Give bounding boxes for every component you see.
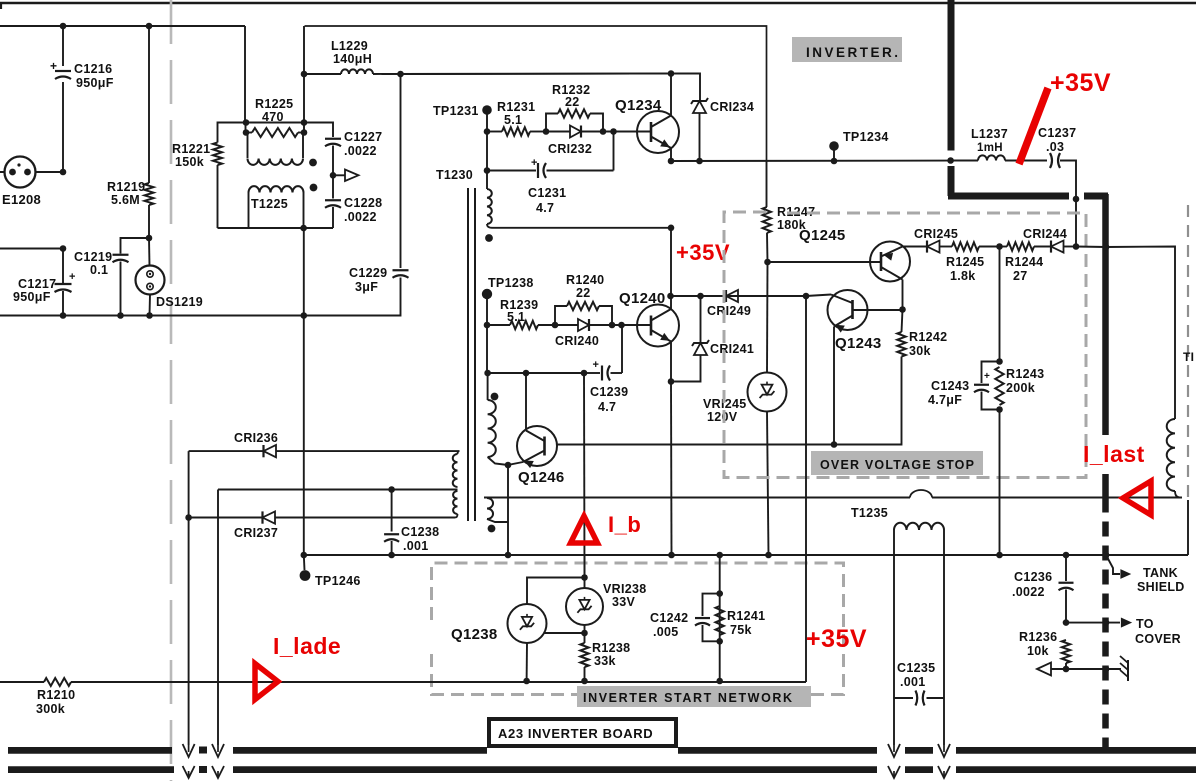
wire Q1238 anode loop [527,578,585,605]
wire row to tank coil [1106,247,1175,420]
node R1241 box bottom [716,638,723,645]
wire +35V link [670,228,672,296]
svg-text:R1241: R1241 [727,609,765,623]
label INVERTER START NETWORK [577,686,811,707]
wire L1237 to C1237 [1005,160,1047,162]
svg-text:22: 22 [565,95,580,109]
label R1245 [946,255,984,283]
label L1229 [331,39,372,66]
svg-text:4.7: 4.7 [598,400,616,414]
wire Q1234 collector [670,74,672,116]
svg-text:C1231: C1231 [528,186,566,200]
svg-text:200k: 200k [1006,381,1035,395]
label R1225 [255,97,293,124]
svg-text:140μH: 140μH [333,52,372,66]
wire T1230 tap [218,489,458,491]
wire VRI245 top [766,262,769,373]
svg-text:10k: 10k [1027,644,1049,658]
diode CRI236 [189,445,460,457]
svg-text:CRI232: CRI232 [548,142,592,156]
wire +35V rail [671,160,951,162]
wire Q1245 base [768,261,882,263]
node rail R1241 [716,552,723,559]
testpoint TP1234 [829,141,839,161]
resistor R1221 [213,123,246,229]
node E1208 junction [60,169,67,176]
wire Q1245 collector [902,280,904,310]
svg-text:33V: 33V [612,595,636,609]
wire winding1 to Q1234 emitter column [492,227,671,229]
svg-text:5.6M: 5.6M [111,193,140,207]
wire top rail to T1230 corner [305,26,767,161]
svg-text:+: + [593,359,600,371]
svg-text:R1243: R1243 [1006,367,1044,381]
capacitor C1239 [484,325,622,381]
node R1247 bottom [764,259,771,266]
svg-text:E1208: E1208 [2,192,41,207]
node C1239 riser [618,322,625,329]
arrow from transformer (open) [1037,663,1051,676]
wire tap corner column [217,490,219,746]
wire top rail left [0,25,245,27]
wire R1241 column [719,555,721,681]
node rail DS1219 [146,312,153,319]
svg-text:INVERTER START NETWORK: INVERTER START NETWORK [583,691,794,705]
signal arrow (buffer) [333,170,359,182]
inductor L1229 [341,69,373,74]
wire row to shield [1076,246,1106,249]
label L1237 [971,127,1008,154]
svg-text:+: + [531,157,538,169]
resistor R1236 [1062,640,1070,669]
transistor Q1246 [517,426,557,467]
wire CRI236 left drop [188,451,190,517]
node rail T1225 column [301,312,308,319]
resistor R1241 [716,606,724,635]
edge dashed continuation [1187,205,1189,500]
node VRI238 top junction [581,574,588,581]
svg-text:C1228: C1228 [344,196,382,210]
wire I_b column [583,373,586,578]
svg-text:R1221: R1221 [172,142,210,156]
node C1237 on shield [1073,196,1080,203]
annotation I_lade arrow [255,664,278,700]
capacitor C1227 [304,123,341,176]
transistor Q1240 [637,305,679,347]
svg-text:TP1246: TP1246 [315,574,361,588]
transformer T1225 upper winding [248,133,304,165]
node C1238 top [388,486,395,493]
rail dots left [199,747,207,774]
svg-text:30k: 30k [909,344,931,358]
dashed box over voltage stop [724,212,1086,478]
node rail C1238 [388,552,395,559]
svg-text:CRI249: CRI249 [707,304,751,318]
svg-text:+: + [50,59,57,73]
zener CRI234 [401,74,709,162]
label Q1246 [518,469,565,486]
wire C1219 corner [121,238,150,254]
svg-text:Q1238: Q1238 [451,626,498,643]
annotation I_b arrow [571,516,598,543]
wire L1229 to main [373,73,700,76]
fold line (grey dashed vertical) [170,0,173,781]
capacitor C1216 [50,59,71,79]
label CRI245 [914,227,958,241]
svg-text:5.1: 5.1 [507,310,525,324]
svg-text:COVER: COVER [1135,632,1181,646]
svg-text:R1231: R1231 [497,100,535,114]
svg-text:I_last: I_last [1083,441,1145,467]
label TO COVER [1135,617,1181,646]
svg-text:R1219: R1219 [107,180,145,194]
wire R1243 column top [999,247,1001,362]
svg-text:1mH: 1mH [977,142,1003,154]
label DS1219 [156,295,203,309]
svg-text:C1239: C1239 [590,385,628,399]
shield border lower segment [1102,474,1109,498]
label C1237 [1038,126,1076,154]
phase dot T1225 upper [309,159,317,167]
svg-text:T1230: T1230 [436,168,473,182]
svg-text:Q1245: Q1245 [799,227,846,244]
wire R1243 column bottom [999,410,1001,556]
arrow exit right B [938,744,950,778]
svg-text:TP1231: TP1231 [433,104,479,118]
svg-text:.0022: .0022 [1012,585,1045,599]
svg-text:75k: 75k [730,623,752,637]
svg-text:.0022: .0022 [344,144,377,158]
transformer T1230 core [468,188,475,521]
svg-text:C1216: C1216 [74,62,112,76]
phase dot T1230 mid [491,393,499,401]
node R1225 left [243,129,250,136]
svg-text:CRI245: CRI245 [914,227,958,241]
svg-text:.0022: .0022 [344,210,377,224]
label R1236 [1019,630,1057,658]
svg-text:470: 470 [262,110,284,124]
capacitor C1243 [974,362,1000,410]
label C1235 [897,661,935,689]
border top edge [0,3,1196,9]
label TP1234 [843,130,889,144]
resistor R1232 bypass loop [546,109,603,131]
transformer T1230 winding mid right [488,373,508,465]
wire start rail (y=555) [304,554,1188,556]
label R1244 [1005,255,1043,283]
svg-text:27: 27 [1013,269,1028,283]
wire Q1246 emitter node [505,462,523,469]
label CRI240 [555,334,599,348]
svg-text:R1242: R1242 [909,330,947,344]
wire C1237 corner down [1060,161,1076,200]
svg-text:.005: .005 [653,625,679,639]
node C1231 riser [610,128,617,135]
shield border vertical [948,0,955,196]
wire Q1243 base [806,295,831,297]
chassis ground symbol [1120,656,1128,681]
wire Q1246 base [557,444,834,446]
node top rail junction R1219 [146,23,153,30]
node CRI241 top [697,293,704,300]
node R1241 rail bottom [716,678,723,685]
label R1238 [592,641,630,668]
resistor R1242 [834,310,906,445]
wire R1225 top link [246,122,304,124]
zener VRI238 [566,555,603,625]
wire CRI249 row [671,295,807,297]
svg-text:CRI236: CRI236 [234,431,278,445]
svg-text:33k: 33k [594,654,616,668]
diode CRI244 [1051,241,1076,253]
label C1238 [401,525,439,553]
label R1247 [777,205,815,232]
node rail VRI245 [765,552,772,559]
node R1231 right [543,128,550,135]
wire T1225 column down [303,228,305,555]
resistor R1243 [995,367,1003,405]
node C1236 bottom [1063,619,1070,626]
phase dot T1230 upper [485,234,493,242]
node CRI234 bottom [696,158,703,165]
label R1232 [552,83,590,109]
svg-text:C1242: C1242 [650,611,688,625]
node Q1240 collector [667,293,674,300]
wire E1208 to C1216 line [36,171,64,173]
node rail Q1240 emitter [668,552,675,559]
zener VRI245 [748,373,787,412]
svg-text:22: 22 [576,286,591,300]
node winding1 junction [668,225,675,232]
capacitor C1238 [384,490,399,556]
node rail Q1246 emitter [505,552,512,559]
svg-text:TO: TO [1136,617,1154,631]
node thick-line crossing [947,157,954,164]
node mid rail junction [60,245,67,252]
svg-text:C1243: C1243 [931,379,969,393]
node L1229 right [397,71,404,78]
node buffer junction [330,172,337,179]
label C1227 [344,130,382,158]
label A23 INVERTER BOARD box [489,719,676,746]
label Q1238 [451,626,498,643]
resistor R1247 [763,161,771,262]
wire T1225 right post [303,26,305,133]
node TP1231 wire [484,128,491,135]
node R1239 right [552,322,559,329]
resistor R1225 [246,128,304,137]
node Q1238 bottom [523,678,530,685]
svg-text:C1236: C1236 [1014,570,1052,584]
wire emitter column [507,465,509,555]
node Q1243 collector junction [899,306,906,313]
wire L1229 lead [304,73,341,75]
label CRI249 [707,304,751,318]
diode CRI245 [927,241,952,253]
label CRI241 [710,342,754,356]
node T1225 bottom [300,225,307,232]
wire left mid rail [0,248,63,250]
testpoint TP1231 [482,105,492,131]
node rail R1243 [996,552,1003,559]
wire Q1240 emitter column [670,382,673,556]
label Q1243 [835,335,882,352]
bottom rail 2 [8,766,1196,773]
svg-text:Q1243: Q1243 [835,335,882,352]
label VRI238 [603,582,647,609]
wire tank shield stub [1106,555,1130,578]
dashed box inverter start network [432,563,844,695]
svg-text:950μF: 950μF [13,290,51,304]
svg-text:+35V: +35V [1050,69,1111,97]
svg-text:4.7μF: 4.7μF [928,393,962,407]
wire Q1240 base [622,324,652,326]
label R1219 [107,180,145,207]
node R1236 bottom [1063,666,1070,673]
annotation +35V pointer line [1019,88,1048,164]
wire +35V start column [805,296,807,682]
capacitor C1217 [55,271,76,292]
svg-text:C1219: C1219 [74,250,112,264]
wire C1216 branch [62,26,64,172]
wire C1236 column [1065,555,1067,581]
transistor Q1234 [637,111,679,153]
svg-text:R1210: R1210 [37,688,75,702]
label C1217 [13,277,56,304]
annotation I_lade [273,633,341,659]
label C1243 [928,379,969,407]
wire Q1234 base [614,131,652,133]
svg-text:950μF: 950μF [76,76,114,90]
node TP1238 wire [484,322,491,329]
label C1242 [650,611,688,639]
wire Q1234 emitter [670,148,672,161]
svg-text:R1238: R1238 [592,641,630,655]
tank winding right edge [1167,419,1180,498]
node Q1234 collector [668,70,675,77]
wire rail right corner [1187,500,1189,555]
svg-text:I_b: I_b [608,512,641,537]
label Q1240 [619,290,666,307]
transformer T1230 winding lower right [487,498,508,523]
svg-text:CRI234: CRI234 [710,100,754,114]
label E1208 [2,192,41,207]
wire Q1240 emitter [670,342,672,382]
node Q1234 emitter [668,158,675,165]
capacitor C1228 [325,175,341,228]
label CRI234 [710,100,754,114]
node R1245-R1244 [996,243,1003,250]
svg-text:R1245: R1245 [946,255,984,269]
wire C1237 column [1075,199,1077,247]
node VRI238-Q1238 junction [581,630,588,637]
svg-text:DS1219: DS1219 [156,295,203,309]
wire to-cover [1066,618,1131,627]
svg-text:.001: .001 [900,675,926,689]
svg-text:A23 INVERTER BOARD: A23 INVERTER BOARD [498,726,653,741]
node Q1240 emitter [668,378,675,385]
svg-text:120V: 120V [707,410,738,424]
label R1239 [500,298,538,324]
node start rail left end [301,552,308,559]
svg-text:C1217: C1217 [18,277,56,291]
label TP1231 [433,104,479,118]
wire C1229 bottom corner [304,278,401,316]
capacitor C1219 [113,255,129,263]
svg-text:Q1234: Q1234 [615,97,662,114]
label T1230 [436,168,473,182]
label TANK SHIELD [1137,566,1185,594]
diode CRI232 [546,126,614,138]
label CRI236 [234,431,278,445]
connector E1208 [0,157,36,188]
svg-text:T1235: T1235 [851,506,888,520]
svg-text:I_lade: I_lade [273,633,341,659]
label C1216 [74,62,114,90]
transformer T1235 primary bump [910,490,932,497]
label OVER VOLTAGE STOP [811,451,983,475]
svg-text:150k: 150k [175,155,204,169]
label Q1245 [799,227,846,244]
label INVERTER box [792,37,902,62]
node L1229 left [301,71,308,78]
node link left [243,119,250,126]
wire CRI237 left column [188,518,190,746]
testpoint TP1238 [482,289,492,325]
arrow exit right A [888,744,900,778]
svg-text:5.1: 5.1 [504,113,522,127]
node loop right [600,128,607,135]
diode CRI237 [189,511,455,523]
node box top [996,358,1003,365]
resistor R1219 [145,26,154,238]
node row on shield [1103,244,1110,251]
svg-text:C1237: C1237 [1038,126,1076,140]
transistor Q1238 (SCR) [508,604,547,643]
label C1228 [344,196,382,224]
svg-text:R1225: R1225 [255,97,293,111]
label T1235 [851,506,888,520]
svg-text:.001: .001 [403,539,429,553]
label C1236 [1012,570,1052,599]
zener CRI241 [671,296,709,382]
label R1243 [1006,367,1044,395]
node CRI244 C1237 column [1073,243,1080,250]
resistor R1210 [44,678,71,686]
node R1238 bottom [581,678,588,685]
svg-text:+35V: +35V [676,240,730,265]
node to-cover shield [1103,619,1110,626]
node Q1243 emitter rail [831,441,838,448]
capacitor C1235 [894,691,944,706]
node top rail junction C1216 [60,23,67,30]
arrow exit left A [183,744,195,778]
capacitor C1242 [695,594,720,642]
label R1242 [909,330,947,358]
transformer T1230 winding upper right [487,171,492,228]
transformer T1225 lower winding [249,186,304,228]
wire Q1238 gate [544,632,585,634]
svg-text:CRI237: CRI237 [234,526,278,540]
transistor Q1245 [870,242,910,282]
label R1210 [36,688,75,716]
svg-text:300k: 300k [36,702,65,716]
svg-text:R1240: R1240 [566,273,604,287]
annotation I_last [1083,441,1145,467]
label CRI237 [234,526,278,540]
resistor R1238 [580,643,588,681]
node CRI236-CRI237 junction [185,514,192,521]
